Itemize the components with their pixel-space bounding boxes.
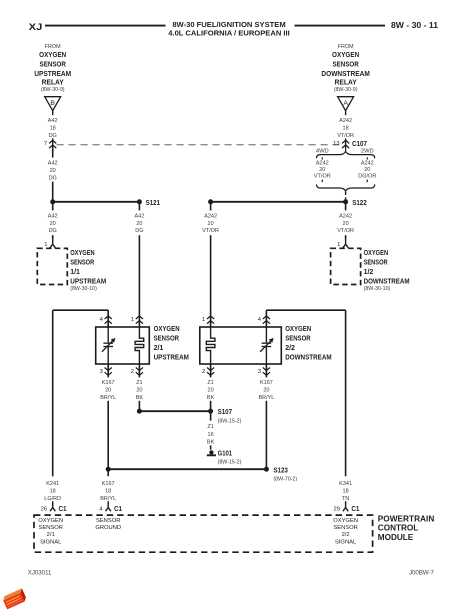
svg-text:4.0L CALIFORNIA / EUROPEAN III: 4.0L CALIFORNIA / EUROPEAN III bbox=[168, 28, 290, 37]
svg-text:1: 1 bbox=[202, 317, 205, 323]
svg-text:OXYGEN: OXYGEN bbox=[154, 326, 180, 333]
svg-text:A42: A42 bbox=[48, 118, 58, 124]
svg-text:DG: DG bbox=[49, 176, 57, 182]
svg-text:UPSTREAM: UPSTREAM bbox=[70, 278, 106, 285]
svg-text:A242: A242 bbox=[339, 118, 352, 124]
svg-text:VT/OR: VT/OR bbox=[202, 228, 219, 234]
svg-text:SIGNAL: SIGNAL bbox=[40, 539, 62, 545]
svg-text:29: 29 bbox=[334, 506, 340, 512]
svg-text:(8W-15-2): (8W-15-2) bbox=[218, 460, 242, 466]
svg-text:S122: S122 bbox=[352, 198, 367, 207]
svg-text:B: B bbox=[50, 100, 55, 107]
svg-text:K167: K167 bbox=[102, 481, 115, 487]
svg-text:2WD: 2WD bbox=[361, 148, 374, 154]
svg-text:OXYGEN: OXYGEN bbox=[285, 326, 311, 333]
svg-text:J00BW-7: J00BW-7 bbox=[409, 570, 435, 577]
svg-text:2: 2 bbox=[202, 369, 205, 375]
svg-text:4WD: 4WD bbox=[316, 148, 329, 154]
svg-text:1: 1 bbox=[44, 242, 47, 248]
svg-text:18: 18 bbox=[343, 126, 349, 132]
svg-text:OXYGEN: OXYGEN bbox=[333, 518, 358, 524]
svg-text:K167: K167 bbox=[102, 380, 115, 386]
svg-text:DOWNSTREAM: DOWNSTREAM bbox=[364, 278, 410, 285]
svg-text:SENSOR: SENSOR bbox=[70, 260, 94, 267]
svg-text:OXYGEN: OXYGEN bbox=[70, 250, 95, 257]
svg-text:BR/YL: BR/YL bbox=[100, 496, 116, 502]
svg-text:VT/OR: VT/OR bbox=[314, 174, 331, 180]
svg-text:S107: S107 bbox=[218, 407, 233, 416]
svg-text:UPSTREAM: UPSTREAM bbox=[154, 355, 189, 362]
svg-text:(8W-30-9): (8W-30-9) bbox=[334, 87, 358, 93]
svg-text:LG/RD: LG/RD bbox=[44, 496, 61, 502]
svg-text:SIGNAL: SIGNAL bbox=[335, 539, 357, 545]
svg-text:DG: DG bbox=[135, 228, 143, 234]
svg-text:SENSOR: SENSOR bbox=[333, 525, 357, 531]
svg-text:SENSOR: SENSOR bbox=[154, 336, 179, 343]
svg-text:RELAY: RELAY bbox=[42, 78, 64, 87]
svg-text:XJ: XJ bbox=[29, 22, 43, 32]
svg-text:Z1: Z1 bbox=[136, 380, 142, 386]
svg-text:A42: A42 bbox=[48, 160, 58, 166]
svg-text:20: 20 bbox=[105, 387, 111, 393]
svg-text:SENSOR: SENSOR bbox=[38, 525, 62, 531]
svg-text:20: 20 bbox=[50, 221, 56, 227]
svg-text:SENSOR: SENSOR bbox=[285, 336, 310, 343]
svg-text:DG: DG bbox=[49, 133, 57, 139]
svg-text:26: 26 bbox=[41, 506, 47, 512]
svg-text:SENSOR: SENSOR bbox=[332, 59, 359, 68]
svg-text:(8W-30-9): (8W-30-9) bbox=[41, 87, 65, 93]
svg-text:UPSTREAM: UPSTREAM bbox=[34, 69, 71, 78]
svg-text:OXYGEN: OXYGEN bbox=[332, 50, 359, 59]
svg-text:(8W-30-10): (8W-30-10) bbox=[70, 286, 97, 292]
svg-text:8W - 30 - 11: 8W - 30 - 11 bbox=[391, 21, 439, 30]
svg-text:1: 1 bbox=[337, 242, 340, 248]
svg-text:OXYGEN: OXYGEN bbox=[364, 250, 389, 257]
svg-text:A242: A242 bbox=[339, 214, 352, 220]
svg-text:2/2: 2/2 bbox=[342, 532, 350, 538]
svg-text:20: 20 bbox=[364, 167, 370, 173]
svg-text:TN: TN bbox=[342, 496, 349, 502]
svg-text:VT/OR: VT/OR bbox=[337, 228, 354, 234]
svg-text:20: 20 bbox=[208, 221, 214, 227]
svg-text:20: 20 bbox=[136, 221, 142, 227]
svg-text:C1: C1 bbox=[114, 504, 122, 513]
svg-text:A42: A42 bbox=[135, 214, 145, 220]
svg-text:BK: BK bbox=[207, 395, 215, 401]
svg-text:20: 20 bbox=[208, 387, 214, 393]
svg-text:3: 3 bbox=[258, 369, 261, 375]
svg-text:BR/YL: BR/YL bbox=[100, 395, 116, 401]
svg-text:20: 20 bbox=[343, 221, 349, 227]
svg-text:A: A bbox=[343, 100, 348, 107]
svg-text:2/1: 2/1 bbox=[154, 345, 164, 352]
svg-text:20: 20 bbox=[136, 387, 142, 393]
svg-text:K341: K341 bbox=[339, 481, 352, 487]
svg-text:1/1: 1/1 bbox=[70, 269, 80, 276]
svg-text:C1: C1 bbox=[351, 504, 359, 513]
svg-text:DOWNSTREAM: DOWNSTREAM bbox=[285, 355, 332, 362]
svg-text:4: 4 bbox=[99, 506, 103, 512]
svg-text:(8W-15-2): (8W-15-2) bbox=[218, 419, 242, 425]
svg-text:4: 4 bbox=[258, 317, 262, 323]
svg-text:SENSOR: SENSOR bbox=[364, 260, 388, 267]
svg-text:A42: A42 bbox=[48, 214, 58, 220]
svg-text:OXYGEN: OXYGEN bbox=[38, 518, 63, 524]
svg-text:CONTROL: CONTROL bbox=[378, 524, 418, 533]
svg-text:(8W-70-2): (8W-70-2) bbox=[273, 477, 297, 483]
svg-text:7: 7 bbox=[44, 141, 47, 147]
svg-text:18: 18 bbox=[343, 489, 349, 495]
svg-text:16: 16 bbox=[208, 432, 214, 438]
svg-text:K241: K241 bbox=[46, 481, 59, 487]
svg-text:2: 2 bbox=[131, 369, 134, 375]
svg-text:G101: G101 bbox=[218, 448, 233, 457]
svg-text:A242: A242 bbox=[361, 161, 374, 167]
svg-text:18: 18 bbox=[50, 489, 56, 495]
svg-text:Z1: Z1 bbox=[207, 380, 213, 386]
svg-text:DG/OR: DG/OR bbox=[358, 174, 376, 180]
svg-text:SENSOR: SENSOR bbox=[40, 59, 67, 68]
svg-text:2/1: 2/1 bbox=[47, 532, 55, 538]
svg-text:POWERTRAIN: POWERTRAIN bbox=[378, 514, 435, 523]
svg-text:3: 3 bbox=[100, 369, 103, 375]
svg-text:BR/YL: BR/YL bbox=[258, 395, 274, 401]
svg-text:S123: S123 bbox=[273, 465, 288, 474]
svg-text:18: 18 bbox=[105, 489, 111, 495]
svg-text:1: 1 bbox=[131, 317, 134, 323]
svg-text:20: 20 bbox=[263, 387, 269, 393]
svg-text:18: 18 bbox=[50, 126, 56, 132]
svg-text:K167: K167 bbox=[260, 380, 273, 386]
svg-text:20: 20 bbox=[50, 168, 56, 174]
svg-text:A242: A242 bbox=[204, 214, 217, 220]
svg-text:1/2: 1/2 bbox=[364, 269, 374, 276]
svg-text:A242: A242 bbox=[316, 161, 329, 167]
svg-text:GROUND: GROUND bbox=[95, 525, 121, 531]
svg-text:DG: DG bbox=[49, 228, 57, 234]
svg-text:20: 20 bbox=[319, 167, 325, 173]
svg-text:MODULE: MODULE bbox=[378, 533, 414, 542]
svg-text:2/2: 2/2 bbox=[285, 345, 295, 352]
svg-text:C107: C107 bbox=[352, 139, 367, 148]
svg-text:13: 13 bbox=[333, 141, 339, 147]
svg-text:(8W-30-10): (8W-30-10) bbox=[364, 286, 391, 292]
svg-text:SENSOR: SENSOR bbox=[96, 518, 120, 524]
svg-text:Z1: Z1 bbox=[207, 424, 213, 430]
svg-text:C1: C1 bbox=[59, 504, 67, 513]
svg-text:XJ03011: XJ03011 bbox=[28, 570, 52, 577]
svg-text:S121: S121 bbox=[146, 198, 161, 207]
svg-text:DOWNSTREAM: DOWNSTREAM bbox=[321, 69, 370, 78]
svg-text:BK: BK bbox=[136, 395, 144, 401]
svg-text:OXYGEN: OXYGEN bbox=[39, 50, 66, 59]
svg-text:4: 4 bbox=[100, 317, 104, 323]
svg-text:BK: BK bbox=[207, 439, 215, 445]
svg-text:RELAY: RELAY bbox=[335, 78, 357, 87]
